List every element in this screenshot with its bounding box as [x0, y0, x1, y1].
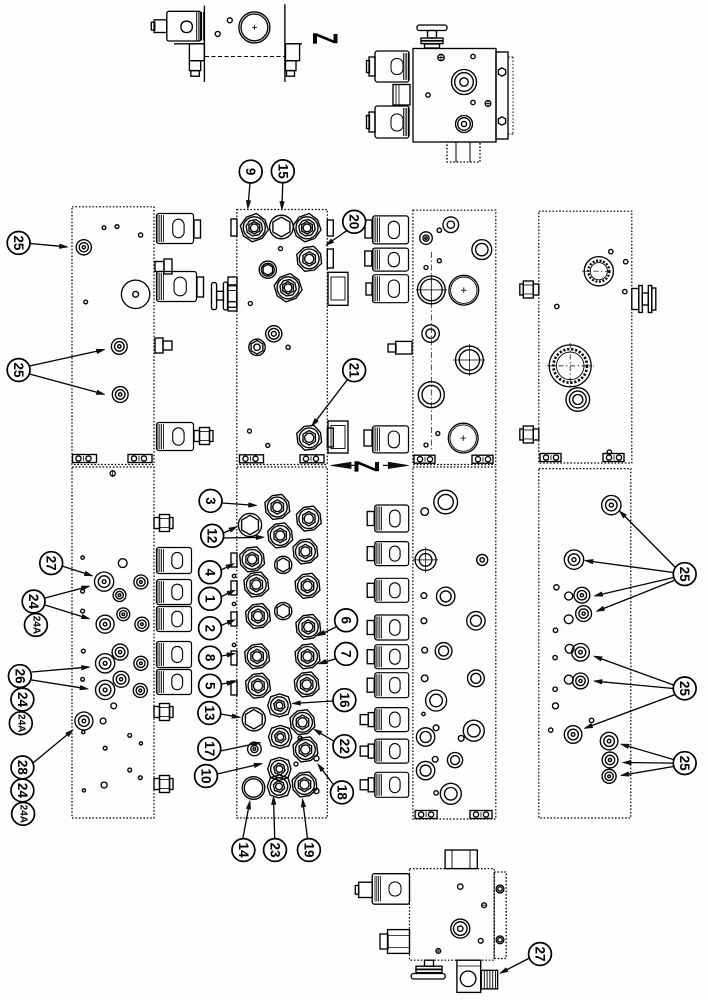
cartridge (item 4) [240, 547, 265, 572]
connector stack [155, 262, 164, 272]
leader to port [62, 566, 85, 573]
small hole [81, 556, 84, 559]
plug (item 12) [238, 513, 261, 536]
svg-text:13: 13 [202, 705, 217, 721]
svg-text:Z: Z [347, 461, 386, 472]
port [416, 728, 434, 746]
port [112, 644, 128, 660]
plate bolt [496, 936, 504, 944]
mounting tab [73, 455, 97, 463]
port [133, 684, 147, 698]
column A lower body outline [72, 467, 154, 818]
plug (item 15) [270, 215, 294, 239]
port [416, 761, 434, 779]
plug [259, 261, 276, 278]
solenoid [375, 645, 409, 669]
small hole [555, 304, 559, 308]
leader [326, 659, 337, 662]
small hole [82, 789, 85, 792]
plug (item 23) [267, 775, 290, 798]
solenoid nut [368, 713, 374, 727]
large boss [121, 280, 149, 308]
small hole [103, 746, 107, 750]
solenoid S2 [157, 272, 197, 302]
plug [269, 725, 292, 748]
leader [221, 594, 228, 597]
balloon 27 [40, 552, 63, 575]
svg-text:27: 27 [44, 556, 59, 571]
small circle left edge [232, 574, 235, 577]
svg-text:17: 17 [202, 741, 217, 756]
svg-text:27: 27 [533, 946, 548, 961]
screw [482, 903, 487, 908]
port [472, 240, 492, 260]
balloon 10 [195, 765, 218, 788]
svg-text:28: 28 [15, 760, 30, 776]
port [117, 608, 130, 621]
solenoid [373, 248, 409, 271]
leader [602, 659, 674, 685]
relief valve cap circle [239, 12, 270, 43]
small hole [81, 589, 85, 593]
leader [221, 623, 228, 626]
leader [301, 701, 334, 703]
plug (item 16) [268, 694, 291, 717]
solenoid nut [365, 251, 372, 266]
hex plug [249, 339, 265, 355]
leader [323, 770, 334, 784]
hole [553, 703, 559, 709]
balloon 25 [673, 677, 696, 700]
leader [221, 682, 227, 685]
small plug [275, 603, 292, 620]
solenoid S5 [157, 580, 192, 605]
solenoid [373, 216, 409, 244]
side tab item 4 [231, 553, 237, 567]
svg-text:4: 4 [203, 569, 218, 577]
svg-text:23: 23 [268, 842, 283, 858]
side plug on right edge [328, 421, 348, 453]
small hole [554, 585, 559, 590]
column B upper body outline [237, 210, 327, 465]
column A upper body outline [72, 207, 154, 465]
port (item 25) [602, 752, 618, 768]
leader [625, 517, 675, 568]
set screw [485, 101, 491, 107]
coil spacer [393, 85, 410, 106]
side tab item 1 [231, 581, 237, 595]
small hole [128, 734, 132, 738]
balloon 26 [9, 665, 32, 688]
solenoid [375, 772, 409, 797]
port [434, 490, 458, 514]
hole [118, 559, 127, 568]
small hole [248, 429, 252, 433]
svg-text:16: 16 [337, 693, 352, 709]
side knob stack (manual override) [212, 283, 217, 310]
left mounting bracket [174, 43, 204, 45]
solenoid nut [368, 744, 374, 758]
small hole [471, 54, 475, 58]
balloon 13 [198, 702, 221, 725]
leader [281, 183, 284, 202]
port [422, 325, 439, 342]
port (item 25) [572, 644, 590, 662]
mounting tab [540, 454, 561, 462]
small hole [426, 93, 430, 97]
balloon 25 [7, 232, 30, 255]
port (item 25) [564, 726, 582, 744]
plug (item 13) [242, 708, 265, 731]
cartridge (item 21) [297, 425, 322, 450]
leader [221, 567, 227, 570]
leader [304, 807, 308, 839]
svg-text:12: 12 [205, 528, 220, 543]
solenoid [375, 505, 409, 532]
solenoid [375, 708, 409, 732]
plate bolt [496, 885, 504, 893]
small hole [433, 725, 439, 731]
knurled plug (item 27) [481, 970, 498, 989]
anchor screw [110, 471, 115, 476]
svg-text:24: 24 [26, 594, 41, 610]
leader [602, 682, 673, 689]
balloon 25 [673, 752, 696, 775]
balloon 3 [199, 490, 222, 513]
port [266, 326, 282, 342]
balloon 5 [199, 674, 222, 697]
small hole [128, 768, 132, 772]
svg-text:20: 20 [347, 214, 362, 229]
balloon 17 [198, 737, 221, 760]
balloon 12 [201, 524, 224, 547]
mounting tab [415, 811, 437, 819]
solenoid S6 [157, 607, 192, 632]
svg-text:9: 9 [243, 168, 258, 176]
lower port [456, 116, 473, 133]
bottom T-handle [425, 960, 434, 966]
small hole [215, 31, 220, 36]
cartridge (item 22) [290, 710, 315, 735]
side tab top right edge [327, 220, 333, 236]
leader [629, 767, 674, 775]
centerline (dashed) [205, 56, 285, 58]
small hole [624, 260, 628, 264]
balloon 7 [335, 643, 358, 666]
small hole [115, 225, 119, 229]
svg-text:6: 6 [339, 617, 354, 625]
small hole [294, 762, 298, 766]
svg-text:25: 25 [677, 681, 692, 697]
small hole [279, 247, 283, 251]
side tab item 21 [327, 428, 333, 447]
tiny hole [422, 712, 425, 715]
left lower hex fitting [388, 930, 410, 954]
svg-text:Z: Z [306, 33, 345, 44]
small hole [437, 259, 441, 263]
leader [321, 733, 335, 741]
cartridge (item 2) [246, 604, 271, 629]
cartridge (item 1) [244, 572, 269, 597]
svg-text:24A: 24A [18, 805, 29, 823]
small hole [553, 655, 557, 659]
small hole [421, 675, 428, 682]
balloon 1 [199, 587, 222, 610]
plate bolt [498, 68, 505, 76]
mounting tab [472, 455, 493, 463]
side tab item 20 [327, 249, 333, 268]
small hole [266, 443, 270, 447]
column D upper body outline [539, 211, 632, 463]
cartridge [294, 672, 319, 697]
side tab item 8 [231, 651, 237, 665]
bolt on solenoid S3 [194, 431, 200, 442]
leader to port [30, 351, 97, 366]
leader to port [33, 735, 67, 763]
cartridge [293, 214, 321, 242]
balloon 23 [264, 839, 287, 862]
balloon 19 [298, 839, 321, 862]
leader [507, 958, 529, 970]
leader [249, 183, 251, 201]
balloon 25 [673, 563, 696, 586]
leader [224, 536, 257, 539]
balloon 24A [12, 802, 35, 825]
solenoid top view [167, 11, 201, 41]
port (item 25) [564, 550, 583, 569]
port (item 25) [602, 769, 616, 783]
mounting tab [240, 455, 264, 463]
balloon 24A [9, 712, 32, 735]
small hole [436, 432, 440, 436]
small hole [458, 735, 464, 741]
solenoid [375, 578, 409, 602]
small hole [81, 609, 85, 613]
svg-text:14: 14 [236, 842, 251, 858]
port (item 24) [96, 615, 114, 633]
leader to port [32, 668, 82, 672]
cartridge (item 18) [293, 737, 318, 762]
small hole [421, 593, 427, 599]
svg-text:19: 19 [301, 842, 316, 857]
hole [101, 782, 107, 788]
svg-text:18: 18 [334, 785, 349, 801]
port [134, 575, 148, 589]
port (item 25) [573, 673, 589, 689]
port (item 27) [95, 572, 114, 591]
cartridge [295, 573, 320, 598]
hole [100, 718, 106, 724]
hex bolt [154, 779, 160, 790]
hole [564, 615, 573, 624]
toothed port [582, 270, 616, 272]
column D lower body outline [539, 469, 631, 818]
solenoid [375, 739, 409, 763]
small plug [275, 556, 292, 573]
solenoid [375, 615, 409, 640]
right mounting bracket [285, 43, 302, 45]
leader [221, 714, 232, 716]
small hole [81, 649, 85, 653]
balloon 22 [333, 735, 356, 758]
small fitting [396, 341, 412, 354]
stem [360, 715, 368, 725]
solenoid [375, 542, 409, 566]
svg-text:1: 1 [203, 595, 218, 603]
port [468, 670, 485, 687]
leader [333, 231, 348, 241]
balloon 20 [343, 210, 366, 233]
leader [602, 578, 673, 595]
port [426, 690, 447, 711]
svg-text:22: 22 [337, 739, 352, 754]
small hole [424, 443, 428, 447]
solenoid nut [367, 650, 374, 664]
svg-text:25: 25 [11, 362, 26, 378]
small hole [248, 302, 252, 306]
top boss [445, 850, 477, 869]
cartridge (item 7) [295, 644, 320, 669]
leader to port [32, 680, 80, 688]
small hole [553, 687, 557, 691]
column C lower body outline [413, 467, 496, 819]
section arrow right [388, 462, 408, 468]
balloon 2 [199, 617, 222, 640]
side tab top left edge [231, 219, 237, 236]
small hole [227, 18, 232, 23]
svg-text:24: 24 [15, 783, 30, 799]
balloon 9 [239, 160, 262, 183]
port [467, 612, 485, 630]
small circle left edge [232, 602, 235, 605]
small hole [138, 776, 142, 780]
port [420, 232, 433, 245]
connector pin [366, 283, 372, 295]
solenoid nut [367, 583, 374, 597]
side tab upper left edge [228, 277, 237, 311]
svg-text:26: 26 [12, 669, 27, 685]
section arrow left [331, 462, 351, 468]
column B lower body outline [237, 467, 327, 818]
port (item 14) [242, 777, 265, 800]
solenoid nut [367, 512, 374, 526]
cartridge [293, 539, 318, 564]
port [437, 587, 455, 605]
solenoid coil upper [375, 51, 409, 82]
solenoid nut [367, 621, 374, 635]
plate bolt [498, 117, 505, 125]
port [435, 643, 452, 660]
small hole [102, 226, 106, 230]
hole [565, 644, 574, 653]
top view of valve section (top-left) [203, 6, 205, 82]
small hole [139, 742, 142, 745]
port [113, 589, 126, 602]
large port [448, 423, 478, 453]
balloon 24 [11, 688, 34, 711]
port [418, 382, 444, 408]
leader [325, 627, 337, 633]
small hole [609, 249, 613, 253]
leader to port [45, 588, 82, 598]
svg-text:10: 10 [199, 768, 214, 783]
balloon 24 [11, 779, 34, 802]
solenoid S8 [157, 670, 192, 695]
small hole [422, 647, 428, 653]
solenoid [372, 874, 409, 905]
port (item 26) [96, 680, 115, 699]
small hole [432, 756, 438, 762]
svg-text:25: 25 [677, 567, 692, 583]
tiny hole [589, 718, 593, 722]
small hole [478, 938, 483, 943]
hole [564, 675, 573, 684]
large toothed bore [547, 365, 594, 367]
svg-text:24A: 24A [30, 616, 41, 634]
left bolt [533, 284, 539, 295]
cartridge [268, 523, 293, 548]
small hole [298, 736, 302, 740]
port (item 25) [600, 732, 618, 750]
port [440, 783, 461, 804]
balloon 6 [335, 609, 358, 632]
balloon 16 [333, 689, 356, 712]
port [248, 742, 262, 756]
small hole [434, 791, 438, 795]
svg-text:3: 3 [203, 497, 218, 505]
hex bolt [154, 518, 160, 529]
mounting tab [300, 455, 324, 463]
port [135, 617, 149, 631]
port [134, 656, 148, 670]
cartridge (item 6) [296, 614, 321, 639]
plug (item 10/17) [268, 757, 291, 780]
solenoid nut [367, 678, 374, 692]
small hole [623, 289, 627, 293]
center port [451, 919, 470, 938]
balloon 14 [232, 839, 255, 862]
port [456, 346, 484, 374]
port (item 28) [75, 712, 93, 730]
balloon 28 [11, 756, 34, 779]
balloon 24A [25, 614, 48, 637]
solenoid nut [368, 778, 374, 792]
stem [360, 746, 368, 756]
port (item 25) [112, 387, 128, 403]
leader [274, 805, 275, 839]
leader [629, 746, 674, 759]
port [447, 753, 462, 768]
svg-text:2: 2 [203, 624, 218, 632]
bottom hex boss [457, 960, 481, 992]
knob stack right [632, 289, 639, 310]
svg-text:25: 25 [677, 756, 692, 772]
leader [217, 765, 254, 774]
svg-text:24: 24 [15, 692, 30, 708]
cartridge (item 5) [246, 673, 271, 698]
solenoid S4 [157, 548, 192, 574]
balloon 25 [7, 359, 30, 382]
solenoid S3 [157, 423, 194, 451]
solenoid nut [364, 430, 372, 446]
port [113, 671, 129, 687]
small circle left edge [232, 643, 235, 646]
leader [631, 762, 673, 765]
leader [593, 562, 673, 573]
leader [222, 503, 249, 505]
hand knob T-handle [417, 25, 447, 31]
solenoid nut [365, 220, 372, 238]
